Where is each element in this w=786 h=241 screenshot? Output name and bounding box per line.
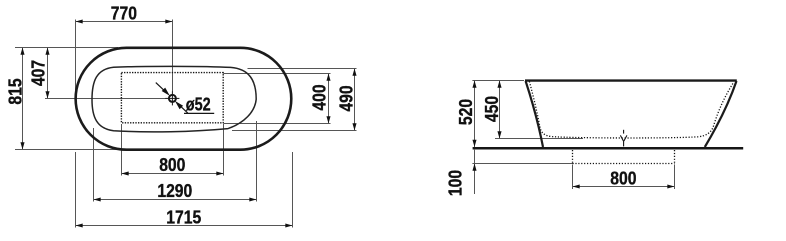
svg-text:520: 520 (455, 99, 477, 125)
svg-text:450: 450 (481, 96, 503, 122)
svg-text:1290: 1290 (157, 180, 192, 202)
svg-text:1715: 1715 (166, 206, 201, 228)
svg-text:100: 100 (444, 170, 466, 196)
svg-text:407: 407 (27, 60, 49, 86)
svg-text:770: 770 (111, 2, 137, 24)
svg-text:815: 815 (4, 78, 26, 105)
svg-text:800: 800 (610, 167, 636, 189)
svg-text:800: 800 (159, 154, 185, 176)
svg-text:400: 400 (308, 84, 330, 110)
svg-text:ø52: ø52 (186, 94, 211, 115)
svg-text:490: 490 (335, 85, 357, 111)
